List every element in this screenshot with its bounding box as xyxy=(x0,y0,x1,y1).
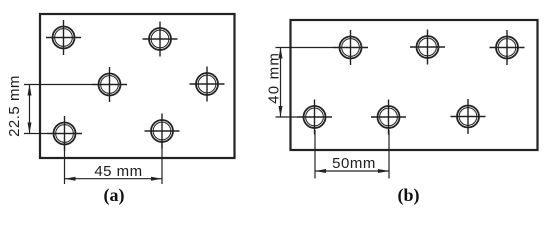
dimension 22.5mm extension line bottom xyxy=(24,133,47,135)
dimension 50mm extension line right xyxy=(388,130,390,179)
hole A4 middle-right xyxy=(190,67,225,102)
hole B5 bottom-middle xyxy=(371,100,406,135)
hole B4 bottom-left xyxy=(297,100,332,135)
dimension 50mm extension line left xyxy=(314,130,316,179)
hole A3 middle-left xyxy=(92,67,127,102)
dimension 50mm arrow left xyxy=(315,169,326,173)
dimension 45mm extension line right xyxy=(161,140,163,184)
plate (b) outline xyxy=(291,20,538,150)
dimension 40mm arrow down xyxy=(279,106,283,117)
hole B1 top-left xyxy=(333,30,368,65)
dimension 45mm arrow left xyxy=(65,177,76,181)
hole A1 top-left xyxy=(46,20,81,55)
dimension 22.5mm arrow up xyxy=(28,85,32,96)
dimension 45mm arrow right xyxy=(151,177,162,181)
dimension 22.5mm extension line top xyxy=(24,84,92,86)
dimension 40mm extension line bottom xyxy=(276,116,298,118)
dimension 40mm arrow up xyxy=(279,48,283,59)
dimension 50mm dimension line xyxy=(315,170,389,172)
dimension 50mm arrow right xyxy=(378,169,389,173)
svg-text:45 mm: 45 mm xyxy=(94,163,142,180)
hole A6 bottom-middle xyxy=(145,114,180,149)
dimension 45mm extension line left xyxy=(64,140,66,184)
dimension 22.5mm arrow down xyxy=(28,123,32,134)
svg-text:(b): (b) xyxy=(398,185,420,206)
hole B6 bottom-right xyxy=(451,99,486,134)
svg-text:22.5 mm: 22.5 mm xyxy=(6,75,23,137)
hole B2 top-middle xyxy=(410,30,445,65)
svg-text:40 mm: 40 mm xyxy=(265,52,282,104)
dimension 40mm extension line top xyxy=(276,47,334,49)
svg-text:(a): (a) xyxy=(104,185,125,206)
hole A2 top-middle xyxy=(143,22,178,57)
hole A5 bottom-left xyxy=(47,116,82,151)
svg-text:50mm: 50mm xyxy=(332,155,376,172)
dimension 22.5mm dimension line xyxy=(29,85,31,134)
plate (a) outline xyxy=(40,14,235,158)
dimension 45mm dimension line xyxy=(65,178,163,180)
hole B3 top-right xyxy=(490,30,525,65)
dimension 40mm dimension line xyxy=(280,48,282,118)
